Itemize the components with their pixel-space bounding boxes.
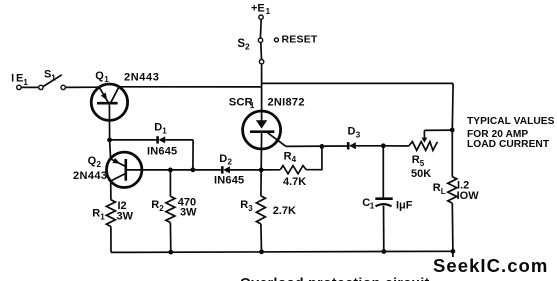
resistor R5 rheostat	[409, 142, 438, 151]
junction R2 bottom on rail	[168, 250, 173, 255]
wire D1 to corner	[165, 139, 193, 141]
terminal RESET	[274, 38, 278, 42]
label S1	[44, 69, 56, 83]
wire junction to R5	[383, 145, 408, 147]
svg-text:+E: +E	[251, 3, 265, 15]
svg-text:1: 1	[23, 78, 28, 87]
wire Q1 base down	[108, 103, 110, 140]
svg-text:2: 2	[97, 160, 102, 169]
svg-text:IOW: IOW	[457, 190, 480, 202]
svg-text:R: R	[433, 182, 441, 194]
capacitor C1	[375, 199, 392, 207]
svg-text:4: 4	[292, 155, 297, 164]
label SCR1	[229, 97, 255, 110]
svg-text:1: 1	[162, 126, 167, 135]
wire gate to D3 junction	[286, 145, 348, 147]
note typical values	[467, 116, 555, 150]
transistor Q1	[91, 84, 127, 120]
svg-text:4.7K: 4.7K	[283, 176, 306, 188]
svg-text:1: 1	[104, 75, 109, 84]
svg-text:L: L	[441, 187, 446, 196]
junction R5 wiper on right rail	[450, 128, 455, 133]
wire R2 to ground rail	[169, 223, 171, 253]
label Q2	[88, 155, 102, 169]
label D3	[348, 125, 361, 139]
svg-text:TYPICAL VALUES: TYPICAL VALUES	[467, 116, 555, 127]
wire Q2 collector down to R1	[110, 181, 112, 200]
wire S2 to SCR anode	[261, 64, 263, 121]
junction gate / R4 / D3	[320, 144, 325, 149]
wire corner down to main wire	[192, 140, 194, 170]
resistor R4	[280, 166, 306, 174]
label R2	[151, 199, 164, 213]
svg-text:2.7K: 2.7K	[273, 205, 296, 217]
wire SCR anode line to right rail (upper)	[262, 82, 454, 84]
diode D2	[222, 166, 230, 173]
wire R1 to ground rail	[110, 227, 112, 253]
svg-text:IN645: IN645	[214, 174, 244, 186]
resistor R1	[106, 200, 115, 227]
wire Q1 collector to SCR anode line	[119, 86, 262, 88]
svg-text:2: 2	[245, 42, 250, 52]
svg-text:1: 1	[370, 202, 375, 211]
svg-text:R: R	[92, 208, 100, 220]
wire R5 wiper to right rail	[424, 129, 452, 131]
junction Q1 base / D1 / Q2 emitter	[107, 138, 112, 143]
junction C1 bottom on rail	[381, 249, 386, 254]
wire junction to Q2 emitter	[110, 140, 111, 159]
node +E1 label	[251, 3, 271, 16]
svg-text:R: R	[284, 150, 292, 162]
label RL	[433, 182, 446, 196]
svg-text:D: D	[154, 122, 162, 134]
svg-text:Overload protection circuit: Overload protection circuit	[240, 275, 430, 281]
svg-text:2N443: 2N443	[73, 170, 107, 182]
svg-text:2NI872: 2NI872	[268, 96, 305, 108]
svg-text:Q: Q	[95, 70, 104, 82]
wire RL to rail corner	[451, 203, 454, 251]
wire S1 to Q1 emitter	[66, 86, 100, 88]
junction D1 branch on main wire	[191, 167, 196, 172]
wire ground rail	[111, 251, 453, 252]
svg-text:R: R	[151, 199, 159, 211]
label D1	[154, 122, 167, 136]
svg-text:R: R	[240, 199, 248, 211]
label R3	[240, 199, 253, 213]
label D2	[219, 153, 232, 166]
value 1.2 10W (RL)	[457, 179, 480, 202]
value 12 3W (R1)	[117, 200, 134, 223]
junction R2 top	[168, 168, 173, 173]
diode D3	[348, 142, 356, 149]
svg-text:1: 1	[250, 101, 255, 110]
transistor Q2	[107, 152, 142, 187]
wire E1 to S1	[21, 86, 38, 88]
node E1 input label	[12, 73, 29, 87]
SCR U1 thyristor SCR1	[243, 111, 286, 149]
switch S1	[39, 75, 66, 90]
svg-text:5: 5	[420, 159, 425, 168]
svg-text:E: E	[16, 73, 23, 85]
junction rail right end	[451, 249, 456, 254]
svg-text:R: R	[412, 154, 420, 166]
svg-text:3W: 3W	[117, 210, 134, 222]
svg-text:1: 1	[266, 7, 271, 16]
svg-text:IμF: IμF	[396, 199, 413, 211]
label S2	[237, 38, 250, 52]
wire Q2 base to R2 junction and D2	[126, 169, 222, 171]
resistor R3	[256, 196, 265, 224]
wire D2 to SCR junction	[230, 169, 280, 171]
label R5	[412, 154, 425, 168]
wire stub below rail right end	[452, 251, 454, 257]
label R4	[284, 150, 297, 164]
svg-text:IN645: IN645	[147, 145, 177, 157]
R5 wiper arrow	[422, 130, 428, 142]
svg-text:1: 1	[51, 74, 56, 83]
svg-text:RESET: RESET	[282, 34, 318, 46]
wire R3 to ground rail	[260, 224, 263, 252]
label C1	[362, 197, 375, 211]
junction D3 / C1 / R5	[381, 143, 386, 148]
resistor R2	[166, 196, 175, 222]
wire R2 branch upper	[169, 170, 171, 196]
svg-text:Q: Q	[88, 155, 97, 167]
svg-text:3: 3	[356, 130, 361, 139]
resistor RL	[448, 177, 457, 203]
label R1	[92, 208, 105, 222]
junction SCR cathode on main wire	[259, 168, 264, 173]
svg-text:3W: 3W	[180, 207, 197, 219]
svg-text:2: 2	[159, 204, 164, 213]
svg-text:50K: 50K	[411, 168, 431, 180]
value 470 3W (R2)	[178, 197, 197, 219]
wire R4 to corner up	[306, 146, 322, 169]
svg-text:1: 1	[100, 213, 105, 222]
svg-text:2: 2	[228, 157, 233, 166]
diode D1	[158, 136, 166, 143]
svg-text:2N443: 2N443	[124, 72, 159, 84]
wire SCR cathode to R3	[260, 170, 262, 196]
wire C1 branch upper	[382, 146, 384, 198]
svg-text:D: D	[348, 125, 356, 137]
svg-text:LOAD CURRENT: LOAD CURRENT	[467, 139, 550, 150]
svg-text:D: D	[219, 153, 227, 165]
svg-text:3: 3	[248, 204, 253, 213]
svg-text:SeekIC.com: SeekIC.com	[433, 255, 548, 276]
wire D3 to C1 junction	[356, 145, 384, 147]
label Q1	[95, 70, 109, 84]
terminal E1 left	[17, 85, 21, 89]
switch S2	[258, 15, 264, 64]
wire junction to D1	[110, 139, 158, 141]
wire C1 to ground rail	[383, 206, 385, 252]
junction R3 bottom on rail	[259, 249, 264, 254]
wire SCR cathode down to main node	[260, 133, 262, 170]
wire right rail upper	[451, 83, 454, 176]
